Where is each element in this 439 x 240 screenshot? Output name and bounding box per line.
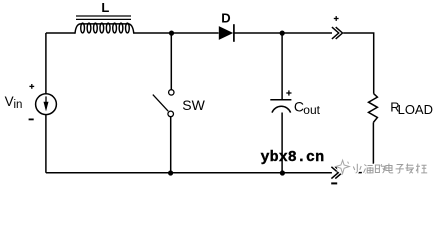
svg-text:ybx8.cn: ybx8.cn: [261, 149, 325, 166]
label + (Vout plus): [334, 16, 339, 21]
node junction dot (L / SW / D): [169, 30, 174, 35]
svg-text:V: V: [5, 94, 14, 109]
label + (Cout plus): [286, 90, 291, 95]
wire Cout branch top: [281, 33, 283, 99]
svg-text:L: L: [101, 0, 109, 15]
svg-text:in: in: [14, 99, 23, 111]
海: [364, 165, 374, 174]
svg-text:D: D: [221, 11, 230, 26]
wire top rail: inductor to diode: [134, 32, 219, 34]
node junction dot (D / Cout / out): [280, 30, 285, 35]
svg-text:LOAD: LOAD: [398, 102, 433, 117]
inductor L: [75, 16, 134, 34]
diode D: [219, 24, 234, 42]
output terminal chevron + (top): [332, 27, 343, 39]
wire top rail left segment: [46, 32, 75, 34]
label + (Vin plus): [29, 84, 34, 89]
wire top rail right + right branch down to resistor: [343, 33, 374, 94]
label - (Vin minus): [29, 118, 34, 120]
专: [406, 164, 415, 174]
小: [353, 164, 361, 173]
子: [396, 165, 404, 174]
node junction dot (SW / bottom rail): [168, 170, 173, 175]
voltage source Vin: [36, 94, 57, 115]
watermark text 小海的电子专栏 (simplified glyph shapes): [353, 164, 427, 174]
wire top rail: diode to output chevron: [234, 32, 332, 34]
label - (Vout minus): [331, 182, 337, 184]
的: [375, 164, 384, 173]
栏: [416, 164, 427, 174]
watermark logo sparkle: [336, 160, 354, 176]
wire right branch bottom: [343, 122, 373, 172]
wire SW branch bottom: [170, 117, 172, 173]
svg-text:out: out: [303, 103, 320, 117]
电: [386, 164, 393, 173]
node junction dot (Cout / bottom rail): [280, 170, 285, 175]
wire left branch (Vin branch) top part: [45, 33, 47, 94]
wire bottom rail: [46, 172, 332, 174]
wire Cout branch bottom: [281, 113, 283, 173]
wire SW branch top: [170, 33, 172, 90]
resistor RLOAD: [369, 94, 378, 123]
output terminal chevron (bottom): [331, 167, 342, 179]
capacitor Cout: [270, 100, 291, 113]
wire left branch bottom part: [45, 115, 47, 173]
svg-text:SW: SW: [182, 97, 205, 113]
switch SW: [153, 90, 174, 117]
